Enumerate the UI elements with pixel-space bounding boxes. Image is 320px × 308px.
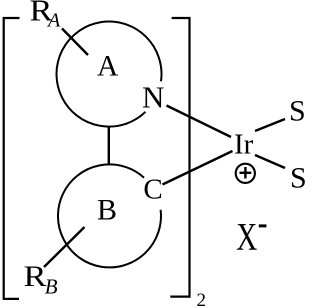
svg-text:X: X (236, 215, 257, 258)
left bracket (4, 18, 20, 299)
ring A circle (57, 22, 162, 127)
counter-ion X (236, 215, 257, 258)
svg-text:2: 2 (197, 290, 207, 308)
bond N to Ir (167, 106, 232, 138)
bond C to Ir (163, 151, 233, 185)
svg-text:N: N (142, 80, 164, 115)
svg-text:S: S (289, 95, 306, 128)
ring B circle (58, 164, 161, 267)
svg-text:R: R (24, 260, 47, 293)
svg-text:B: B (97, 194, 117, 227)
right bracket (170, 18, 189, 297)
svg-text:A: A (46, 9, 61, 31)
svg-text:C: C (143, 174, 162, 206)
svg-text:A: A (97, 51, 119, 83)
charge plus symbol (236, 164, 255, 183)
svg-text:B: B (45, 275, 58, 299)
counter-ion minus charge (259, 224, 267, 227)
bond Ir to S bottom (255, 155, 285, 168)
bond RA to ring A (62, 29, 88, 56)
bond Ir to S top (255, 119, 285, 131)
svg-text:Ir: Ir (234, 129, 254, 161)
bond RB to ring B (44, 227, 85, 267)
bond ring A to ring B (108, 127, 110, 165)
svg-text:S: S (290, 162, 306, 195)
